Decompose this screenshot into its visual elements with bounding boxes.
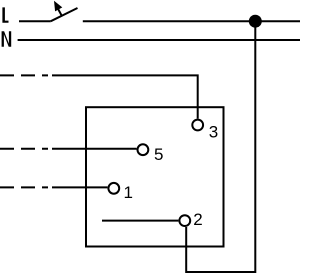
svg-text:5: 5 [154, 145, 163, 164]
svg-text:3: 3 [209, 123, 218, 142]
svg-text:1: 1 [124, 183, 133, 202]
svg-text:2: 2 [193, 210, 202, 229]
